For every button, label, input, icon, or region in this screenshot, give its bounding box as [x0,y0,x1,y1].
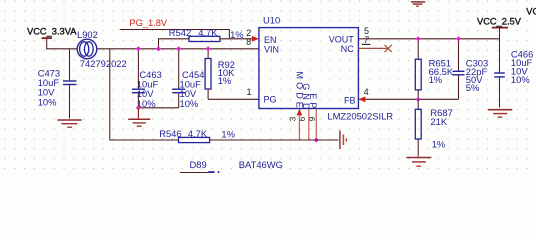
svg-text:1: 1 [246,87,251,97]
junction EP pin at bottom bus [314,137,319,142]
svg-text:1%: 1% [230,29,244,40]
svg-text:PG: PG [264,95,277,105]
svg-text:4.7K: 4.7K [198,27,218,38]
pin 3 MODE stub [298,109,300,140]
svg-text:R542: R542 [169,27,191,38]
ground under C463/C454 bus [128,108,150,126]
label C303 22pF 50V 5% [466,58,488,94]
label R546 4.7K 1% [159,128,235,139]
svg-text:VIN: VIN [264,44,279,54]
wire R92 to U10 pin 1 [208,98,259,100]
svg-text:3: 3 [288,116,297,121]
svg-text:R546: R546 [159,128,181,139]
pin 4 arrow into U10 [358,96,365,102]
junction C463 at rail [136,46,141,51]
wire VIN rail from VCC_3.3VA to L902 [46,48,77,50]
svg-text:10%: 10% [38,96,57,107]
svg-text:1%: 1% [221,128,235,139]
no-connect X on pin 7 [385,45,392,52]
svg-text:FB: FB [344,95,356,105]
pin 6 GND stub [308,109,310,140]
svg-text:742792022: 742792022 [80,58,127,69]
svg-text:4.7K: 4.7K [188,128,208,139]
pin 2 arrow into U10 [252,36,259,42]
wire VIN rail from L902 to U10 pin 8 [97,48,259,50]
wire VOUT rail pin 5 to VCC_2.5V [358,38,499,40]
label R92 10K 1% [218,59,235,86]
wire PG_1.8V net [120,30,230,39]
svg-text:10%: 10% [180,98,199,109]
ground under C466 [488,110,512,117]
svg-text:BAT46WG: BAT46WG [239,159,283,170]
junction ground bus at C463 [136,105,141,110]
junction R651 at VOUT rail [416,36,421,41]
ground (sideways) right of U10 bottom pins [340,131,347,150]
resistor R542 [159,36,253,49]
junction C454 at rail [176,46,181,51]
svg-text:U10: U10 [263,15,280,26]
capacitor C473 [63,49,77,119]
capacitor C454 [172,49,185,108]
inductor L902 [77,39,97,59]
pin 9 EP stub [315,109,317,140]
svg-text:VC: VC [526,7,536,17]
junction FB at R651/R687 [416,97,421,102]
junction R542 branch at rail [156,46,161,51]
svg-text:8: 8 [246,37,251,47]
op-amp style IC box U10 [259,28,359,109]
svg-text:L902: L902 [77,29,98,40]
resistor R651 [415,39,421,100]
pin 3 arrow into U10 [297,109,303,116]
svg-text:4: 4 [364,87,369,97]
power symbol VCC_2.5V [492,28,508,39]
ground (cropped) top center-right [411,2,425,6]
label C463 10uF 10V 10% [137,69,162,109]
label R687 21K 1% [430,107,452,149]
wire to D89 (cropped at bottom) [180,172,208,174]
svg-text:1%: 1% [218,75,232,86]
junction C303 at VOUT rail [456,36,461,41]
capacitor C466 [494,39,505,108]
label C454 10uF 10V 10% [180,69,205,109]
resistor R687 [415,99,421,156]
label C473 10uF 10V 10% [38,67,60,107]
svg-text:NC: NC [341,44,354,54]
svg-text:10%: 10% [511,74,530,85]
wire long drop from rail to R546 [110,49,152,140]
label C466 10uF 10V 10% [511,49,533,85]
wire ground bus under C463/C454 [138,107,178,109]
svg-text:21K: 21K [430,116,447,127]
resistor R546 [152,137,339,142]
ground under R687 [406,158,431,167]
pin 7 NC stub [358,47,387,49]
label R542 4.7K 1% [169,27,244,40]
svg-text:LMZ20502SILR: LMZ20502SILR [327,111,393,122]
ground under C473 [57,120,81,127]
diode D89 symbol (cropped) [208,171,218,173]
wire FB net [358,98,458,100]
capacitor C303 [453,39,465,100]
svg-text:VCC_3.3VA: VCC_3.3VA [27,26,77,36]
power symbol VCC_3.3VA [42,38,52,49]
svg-text:PG_1.8V: PG_1.8V [129,18,168,28]
label R651 66.5K 1% [429,58,454,86]
svg-text:VCC_2.5V: VCC_2.5V [477,16,522,26]
capacitor C463 [132,49,145,108]
svg-text:EP: EP [308,93,318,111]
svg-text:1%: 1% [432,138,446,149]
svg-text:5%: 5% [466,82,480,93]
junction R92 at rail [206,46,211,51]
svg-text:D89: D89 [190,159,207,170]
svg-text:1%: 1% [429,74,443,85]
resistor R92 [205,49,211,100]
